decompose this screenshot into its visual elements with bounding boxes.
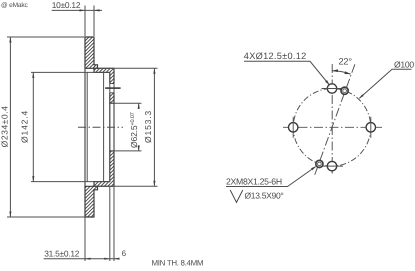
bolt hole top [322, 84, 343, 93]
svg-text:Ø142.4: Ø142.4 [20, 110, 30, 143]
threaded hole lower M8 [316, 160, 323, 167]
dimension 10±0.12 [52, 0, 102, 36]
svg-text:MIN TH. 8.4MM: MIN TH. 8.4MM [152, 259, 204, 268]
bore opening right edge [113, 103, 115, 151]
label 4XØ12.5±0.12 with leader [244, 51, 330, 85]
hat inner diameter line upper [31, 71, 110, 73]
svg-text:2XM8X1.25-6H: 2XM8X1.25-6H [226, 177, 282, 187]
left section view: disc lower friction ring (section) [85, 186, 98, 217]
dimension Ø142.4 [20, 72, 35, 181]
disc inner edge line [86, 72, 88, 181]
hat inner diameter line lower [31, 181, 110, 183]
svg-text:6: 6 [122, 249, 127, 258]
bolt hole centerline in section [105, 87, 120, 89]
front view bolt circle [293, 89, 371, 167]
svg-text:Ø100: Ø100 [394, 60, 414, 70]
bolt hole left [289, 117, 298, 138]
section view centerline [78, 126, 123, 128]
bolt hole right [366, 117, 375, 138]
svg-text:Ø153.3: Ø153.3 [143, 110, 153, 143]
dimension 31.5±0.12 and 6 [44, 187, 127, 261]
bolt hole gap in upper flange [109, 84, 115, 93]
svg-text:4XØ12.5±0.12: 4XØ12.5±0.12 [244, 51, 307, 61]
22 degree slant centerline [315, 64, 355, 175]
left section view: hat lower wall and flange (section) [94, 151, 114, 186]
label Ø100 with leader [359, 60, 414, 99]
left section view: hat upper wall and flange (section) [94, 68, 114, 103]
svg-text:10±0.12: 10±0.12 [52, 0, 81, 10]
svg-text:@ eMakc: @ eMakc [1, 2, 28, 9]
threaded hole upper M8 [341, 87, 348, 94]
svg-text:22°: 22° [339, 57, 353, 67]
label 2XM8X1.25-6H with leader [226, 166, 316, 186]
left section view: disc upper friction ring (section) [85, 37, 98, 68]
svg-text:Ø234±0.4: Ø234±0.4 [0, 106, 9, 148]
angle dimension 22 degrees [332, 57, 352, 75]
dimension Ø153.3 [94, 68, 158, 186]
disc left face line [84, 37, 86, 217]
bore opening left edge [109, 103, 111, 151]
svg-text:Ø13.5X90°: Ø13.5X90° [245, 191, 284, 201]
svg-text:31.5±0.12: 31.5±0.12 [44, 248, 80, 258]
hat interior edge line [103, 72, 105, 181]
bolt hole bottom [322, 161, 344, 170]
dimension Ø62.5 +0.07 [114, 103, 142, 151]
dimension Ø234±0.4 [0, 37, 85, 217]
front view horizontal centerline [283, 126, 382, 128]
countersink symbol and Ø13.5X90° [230, 190, 283, 202]
front view vertical centerline [331, 64, 333, 173]
